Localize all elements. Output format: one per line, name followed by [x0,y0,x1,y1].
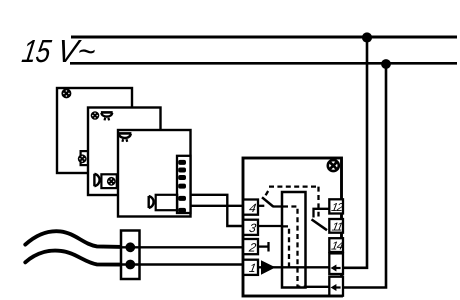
terminal box 12 [329,199,345,214]
dashed actuator link to contacts [266,187,319,217]
terminal box 4 [243,200,258,215]
polarity triangle at terminal 1 [261,260,276,274]
speaker box station B [101,174,116,188]
terminal 2 stub with end bar [258,242,269,252]
arrow terminal b [329,277,343,296]
contact stub from terminal 12 [314,209,329,218]
terminal strip on station C [177,156,191,213]
AC bus wire L1 [71,36,457,39]
wire junction box to terminal 2 [122,246,246,248]
speaker box on station A (partly hidden) [81,151,96,165]
screw on speaker box station A [78,154,87,163]
intercom station A (rear card) [57,88,132,173]
screw on speaker box station B [107,177,116,186]
terminal box 1 [243,260,258,275]
bell symbol station C [118,133,131,141]
junction dot b [125,260,135,270]
central unit housing [243,158,342,296]
terminal 4 contact stub [258,205,265,207]
wire terminal 3 to module [258,225,283,227]
loudspeaker station C [149,196,154,208]
terminal box 3 [243,220,258,235]
loudspeaker station B [94,174,99,187]
junction dot on L1 [362,32,372,42]
wire junction box to terminal 1 [122,263,246,265]
wire: strip to central unit terminal 3 [191,195,247,226]
speaker wire box station C [156,195,178,210]
wire terminal 1 to arrow terminal a [258,266,330,268]
incoming cable a (wavy) [25,231,122,247]
contact blade at terminal 11 [312,219,328,230]
screw on central unit [328,160,339,171]
wire: strip to central unit terminal 4 [191,205,247,207]
wire module to arrow terminal b [306,286,330,288]
contact blade at terminal 4 [262,197,273,206]
junction dot on L2 [381,59,391,69]
intercom station B (middle card) [88,108,161,196]
junction box [121,231,140,280]
screw on station A [61,88,71,98]
relay module rect [282,192,306,288]
wire from L2 down to arrow terminal b [342,63,387,287]
AC bus wire L2 [70,62,457,65]
dashed internal conductor to arrow terminal b [283,207,305,287]
terminal box 2 [243,239,258,254]
wire from L1 down to arrow terminal a [342,37,368,268]
wire blade 4 to module [273,205,282,207]
incoming cable b (wavy) [25,251,122,265]
bell symbol station B [101,112,113,120]
junction dot a [125,242,135,252]
screw on station B [91,111,100,120]
arrow terminal a [329,253,343,274]
dashed internal conductor from terminal 3 [283,226,289,266]
terminal box 11 [329,219,343,233]
strip clamp contacts [178,160,186,213]
terminal box 14 [329,238,344,252]
intercom station C (front card) [118,130,191,217]
